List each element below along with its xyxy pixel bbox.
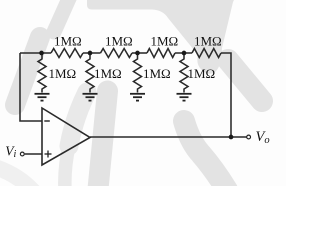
wire: rail R3 to R4 — [175, 52, 192, 54]
wire: feedback left vertical to inverting input — [20, 53, 42, 121]
wire: rail R4 to right corner, down to output node — [221, 53, 231, 137]
ground G4 — [177, 94, 192, 101]
resistor R8 1M (shunt) — [180, 53, 188, 93]
terminal Vo — [247, 135, 251, 139]
op-amp plus sign — [45, 151, 52, 158]
svg-text:1MΩ: 1MΩ — [54, 34, 82, 49]
svg-text:1MΩ: 1MΩ — [143, 66, 171, 81]
op-amp minus sign — [44, 120, 50, 122]
resistor R2 1M (series) — [101, 49, 133, 58]
ground G3 — [130, 94, 145, 101]
svg-text:Vi: Vi — [5, 143, 16, 160]
node B (rail/R6) — [88, 51, 93, 56]
node D (rail/R8) — [182, 51, 187, 56]
op-amp U1 — [42, 108, 90, 165]
svg-text:1MΩ: 1MΩ — [94, 66, 122, 81]
watermark — [0, 0, 262, 192]
resistor R5 1M (shunt) — [38, 53, 46, 93]
resistor R4 1M (series) — [192, 49, 221, 58]
wire: Vi to noninverting input — [25, 153, 42, 155]
resistor R1 1M (series) — [51, 49, 83, 58]
svg-text:1MΩ: 1MΩ — [105, 34, 133, 49]
node C (rail/R7) — [135, 51, 140, 56]
terminal Vi — [20, 152, 24, 156]
svg-text:1MΩ: 1MΩ — [194, 34, 222, 49]
svg-text:1MΩ: 1MΩ — [49, 66, 77, 81]
wire: top rail left segment — [20, 52, 51, 54]
node E (output junction) — [229, 135, 234, 140]
svg-text:1MΩ: 1MΩ — [151, 34, 179, 49]
resistor R6 1M (shunt) — [86, 53, 94, 93]
wire: rail R2 to R3 — [132, 52, 147, 54]
node A (rail/R5) — [39, 51, 44, 56]
wire: rail R1 to R2 — [83, 52, 101, 54]
resistor R3 1M (series) — [147, 49, 175, 58]
ground G2 — [83, 94, 98, 101]
ground G1 — [35, 94, 50, 101]
svg-text:Vo: Vo — [256, 129, 270, 146]
wire: op-amp output to Vo — [90, 136, 247, 138]
resistor R7 1M (shunt) — [134, 53, 142, 93]
svg-text:1MΩ: 1MΩ — [188, 66, 216, 81]
